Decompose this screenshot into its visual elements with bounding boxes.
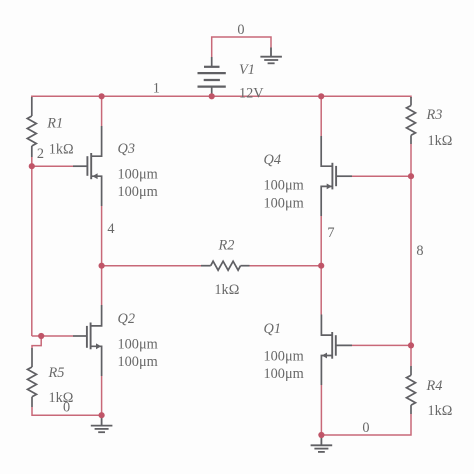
wire right vertical net 8 xyxy=(410,176,412,366)
junction node 8 xyxy=(408,173,414,179)
transistor Q3 xyxy=(73,126,102,206)
svg-text:2: 2 xyxy=(37,146,44,162)
junction node on rail at Q4 drain xyxy=(318,93,324,99)
junction node on rail at V1 xyxy=(209,93,215,99)
resistor R3 xyxy=(407,97,416,144)
svg-text:100μm: 100μm xyxy=(264,366,304,382)
wire net 0 top (battery to ground) xyxy=(212,37,271,57)
wire node 7 down to Q1 drain xyxy=(320,266,322,315)
wire Q2 source down to ground node xyxy=(101,376,103,415)
junction node 2 xyxy=(29,163,35,169)
junction ground node left xyxy=(99,412,105,418)
svg-text:1kΩ: 1kΩ xyxy=(49,141,74,157)
svg-text:R1: R1 xyxy=(46,116,63,132)
ground (bottom left) xyxy=(91,415,113,432)
svg-text:Q2: Q2 xyxy=(118,311,135,327)
wire node 4 to R2 left xyxy=(102,265,201,267)
svg-text:100μm: 100μm xyxy=(264,349,304,365)
svg-text:1kΩ: 1kΩ xyxy=(214,282,239,298)
wire top rail net 1 xyxy=(32,96,411,98)
resistor R4 xyxy=(407,366,416,414)
wire Q3 source to node 4 xyxy=(101,206,103,266)
junction node at Q2 gate / R5 xyxy=(38,333,44,339)
junction node at Q1 gate xyxy=(408,342,414,348)
svg-text:Q1: Q1 xyxy=(264,321,281,337)
svg-text:100μm: 100μm xyxy=(118,167,158,183)
svg-text:100μm: 100μm xyxy=(264,178,304,194)
wire R4 bottom to ground node xyxy=(321,414,411,435)
wire junction to R5 top xyxy=(32,336,41,348)
svg-text:R2: R2 xyxy=(218,238,235,254)
wire node to Q2 gate xyxy=(32,335,73,337)
svg-text:0: 0 xyxy=(237,22,244,38)
wire Q4 source to node 7 xyxy=(320,216,322,266)
svg-text:100μm: 100μm xyxy=(264,195,304,211)
svg-text:Q4: Q4 xyxy=(264,152,281,168)
resistor R1 xyxy=(27,97,36,157)
svg-text:1: 1 xyxy=(153,81,160,97)
svg-text:R5: R5 xyxy=(48,365,65,381)
svg-text:100μm: 100μm xyxy=(118,337,158,353)
svg-text:1kΩ: 1kΩ xyxy=(428,403,453,419)
wire Q1 source to ground node xyxy=(320,385,322,435)
wire node 4 down to Q2 drain xyxy=(101,266,103,305)
svg-text:R4: R4 xyxy=(426,378,443,394)
svg-text:100μm: 100μm xyxy=(118,184,158,200)
wire R2 right to node 7 xyxy=(250,265,322,267)
transistor Q2 xyxy=(73,305,102,376)
ground (bottom right) xyxy=(311,435,333,452)
svg-text:100μm: 100μm xyxy=(118,354,158,370)
junction ground node right xyxy=(318,432,324,438)
wire Q3 drain to rail xyxy=(101,96,103,126)
wire Q1 gate junction xyxy=(352,344,411,346)
resistor R2 xyxy=(201,261,250,270)
svg-text:12V: 12V xyxy=(239,85,264,101)
svg-text:Q3: Q3 xyxy=(118,141,135,157)
svg-text:4: 4 xyxy=(107,221,114,237)
svg-text:V1: V1 xyxy=(239,62,255,78)
wire node 2 to Q3 gate xyxy=(32,165,73,167)
voltage source V1 xyxy=(198,57,226,95)
ground (top, net 0) xyxy=(260,48,282,64)
wire left vertical net 2 xyxy=(31,166,33,336)
svg-text:R3: R3 xyxy=(426,107,443,123)
svg-text:8: 8 xyxy=(416,243,423,259)
wire Q4 drain to rail xyxy=(320,96,322,136)
svg-text:7: 7 xyxy=(327,225,334,241)
wire R1 bottom to node 2 xyxy=(31,157,33,166)
wire R5 bottom to ground net xyxy=(32,407,102,415)
wire Q4 gate to node 8 xyxy=(352,175,411,177)
junction node on rail at Q3 drain xyxy=(99,93,105,99)
junction node 4 xyxy=(99,263,105,269)
junction node 7 xyxy=(318,263,324,269)
wire R3 bottom to node 8 xyxy=(410,144,412,176)
transistor Q1 xyxy=(321,315,352,386)
svg-text:1kΩ: 1kΩ xyxy=(428,133,453,149)
transistor Q4 xyxy=(321,136,352,216)
resistor R5 xyxy=(28,348,37,407)
svg-text:0: 0 xyxy=(63,399,70,415)
svg-text:0: 0 xyxy=(362,420,369,436)
